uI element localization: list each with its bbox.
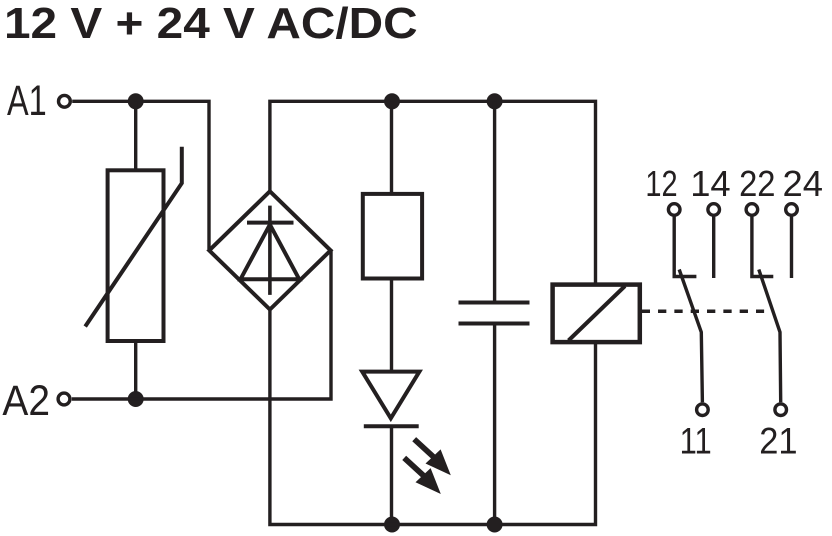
svg-text:11: 11 <box>680 420 712 461</box>
varistor <box>108 170 164 341</box>
junction varistor top <box>128 93 144 109</box>
terminal 21 <box>775 404 787 416</box>
wire varistor to A2 line <box>134 341 137 399</box>
svg-text:A1: A1 <box>7 77 47 125</box>
terminal A1 <box>59 95 71 107</box>
junction resistor branch <box>384 93 400 109</box>
terminal 12 <box>668 204 680 216</box>
contact 22 stem with seat <box>752 215 773 276</box>
svg-text:22: 22 <box>739 163 775 204</box>
contact blade 21-22 <box>759 270 781 403</box>
wire capacitor to bottom rail <box>493 324 496 525</box>
wire junction to varistor <box>134 101 137 170</box>
bridge diode axis <box>268 206 272 295</box>
svg-text:A2: A2 <box>2 377 50 425</box>
svg-text:12: 12 <box>645 163 677 204</box>
wire bridge DC+ rail to relay coil <box>270 101 596 284</box>
contact 24 stem <box>790 215 793 278</box>
LED emission arrow 2 <box>404 458 441 494</box>
bridge rectifier <box>209 191 330 309</box>
varistor diagonal <box>85 147 182 327</box>
LED triangle <box>362 372 419 419</box>
wire LED to bottom rail <box>390 426 393 524</box>
wire bridge DC- bottom rail to relay coil <box>270 310 596 525</box>
contact blade 11-12 <box>679 270 702 403</box>
svg-text:14: 14 <box>690 163 731 204</box>
terminal A2 <box>58 393 70 405</box>
capacitor plate bottom <box>459 322 530 326</box>
junction varistor bottom <box>128 391 144 407</box>
bridge diode cathode bar <box>247 221 294 225</box>
wire A2 to bridge AC input <box>72 250 331 400</box>
contact 14 stem <box>712 215 715 278</box>
LED emission arrow 1 <box>414 439 451 475</box>
wire rail to resistor <box>390 101 393 194</box>
terminal 14 <box>708 204 720 216</box>
LED cathode bar <box>364 424 419 428</box>
relay coil diagonal <box>569 286 626 341</box>
capacitor plate top <box>459 301 530 305</box>
wire A1 to bridge AC input <box>72 101 209 249</box>
svg-text:12 V + 24 V AC/DC: 12 V + 24 V AC/DC <box>4 0 418 48</box>
svg-text:24: 24 <box>783 163 824 204</box>
terminal 11 <box>697 404 709 416</box>
resistor <box>363 194 422 279</box>
relay coil K1 <box>553 285 640 343</box>
terminal 22 <box>746 204 758 216</box>
svg-text:21: 21 <box>759 420 797 461</box>
mechanical link dashed line <box>642 309 764 313</box>
terminal 24 <box>786 204 798 216</box>
junction capacitor top <box>487 93 503 109</box>
bridge diode triangle <box>241 225 300 280</box>
junction capacitor bottom <box>487 517 503 533</box>
junction LED bottom <box>384 517 400 533</box>
wire resistor to LED <box>390 279 393 372</box>
wire rail to capacitor <box>493 101 496 302</box>
contact 12 stem with seat <box>674 215 696 276</box>
